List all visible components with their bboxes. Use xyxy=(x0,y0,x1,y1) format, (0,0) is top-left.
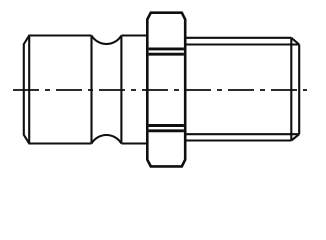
thread minor diameter top xyxy=(187,43,299,45)
hex edge line lower B xyxy=(149,129,184,132)
thread end chamfer bottom xyxy=(291,134,299,140)
hex nut outline xyxy=(147,13,185,167)
centerline xyxy=(13,89,307,91)
thread chamfer start line xyxy=(290,38,292,141)
hex edge line upper B xyxy=(149,53,184,56)
hex edge line upper A xyxy=(149,47,184,50)
thread major diameter bottom xyxy=(187,139,292,141)
thread major diameter top xyxy=(187,37,292,39)
thread end chamfer top xyxy=(291,38,299,45)
hex edge line lower A xyxy=(149,124,184,127)
thread end face xyxy=(298,45,300,135)
plug body outline xyxy=(24,36,147,144)
groove arc bottom xyxy=(92,135,122,143)
thread minor diameter bottom xyxy=(187,133,299,135)
groove wall right xyxy=(120,36,122,144)
chamfer edge line xyxy=(28,36,30,144)
groove arc top xyxy=(92,36,122,44)
groove wall left xyxy=(90,36,92,144)
